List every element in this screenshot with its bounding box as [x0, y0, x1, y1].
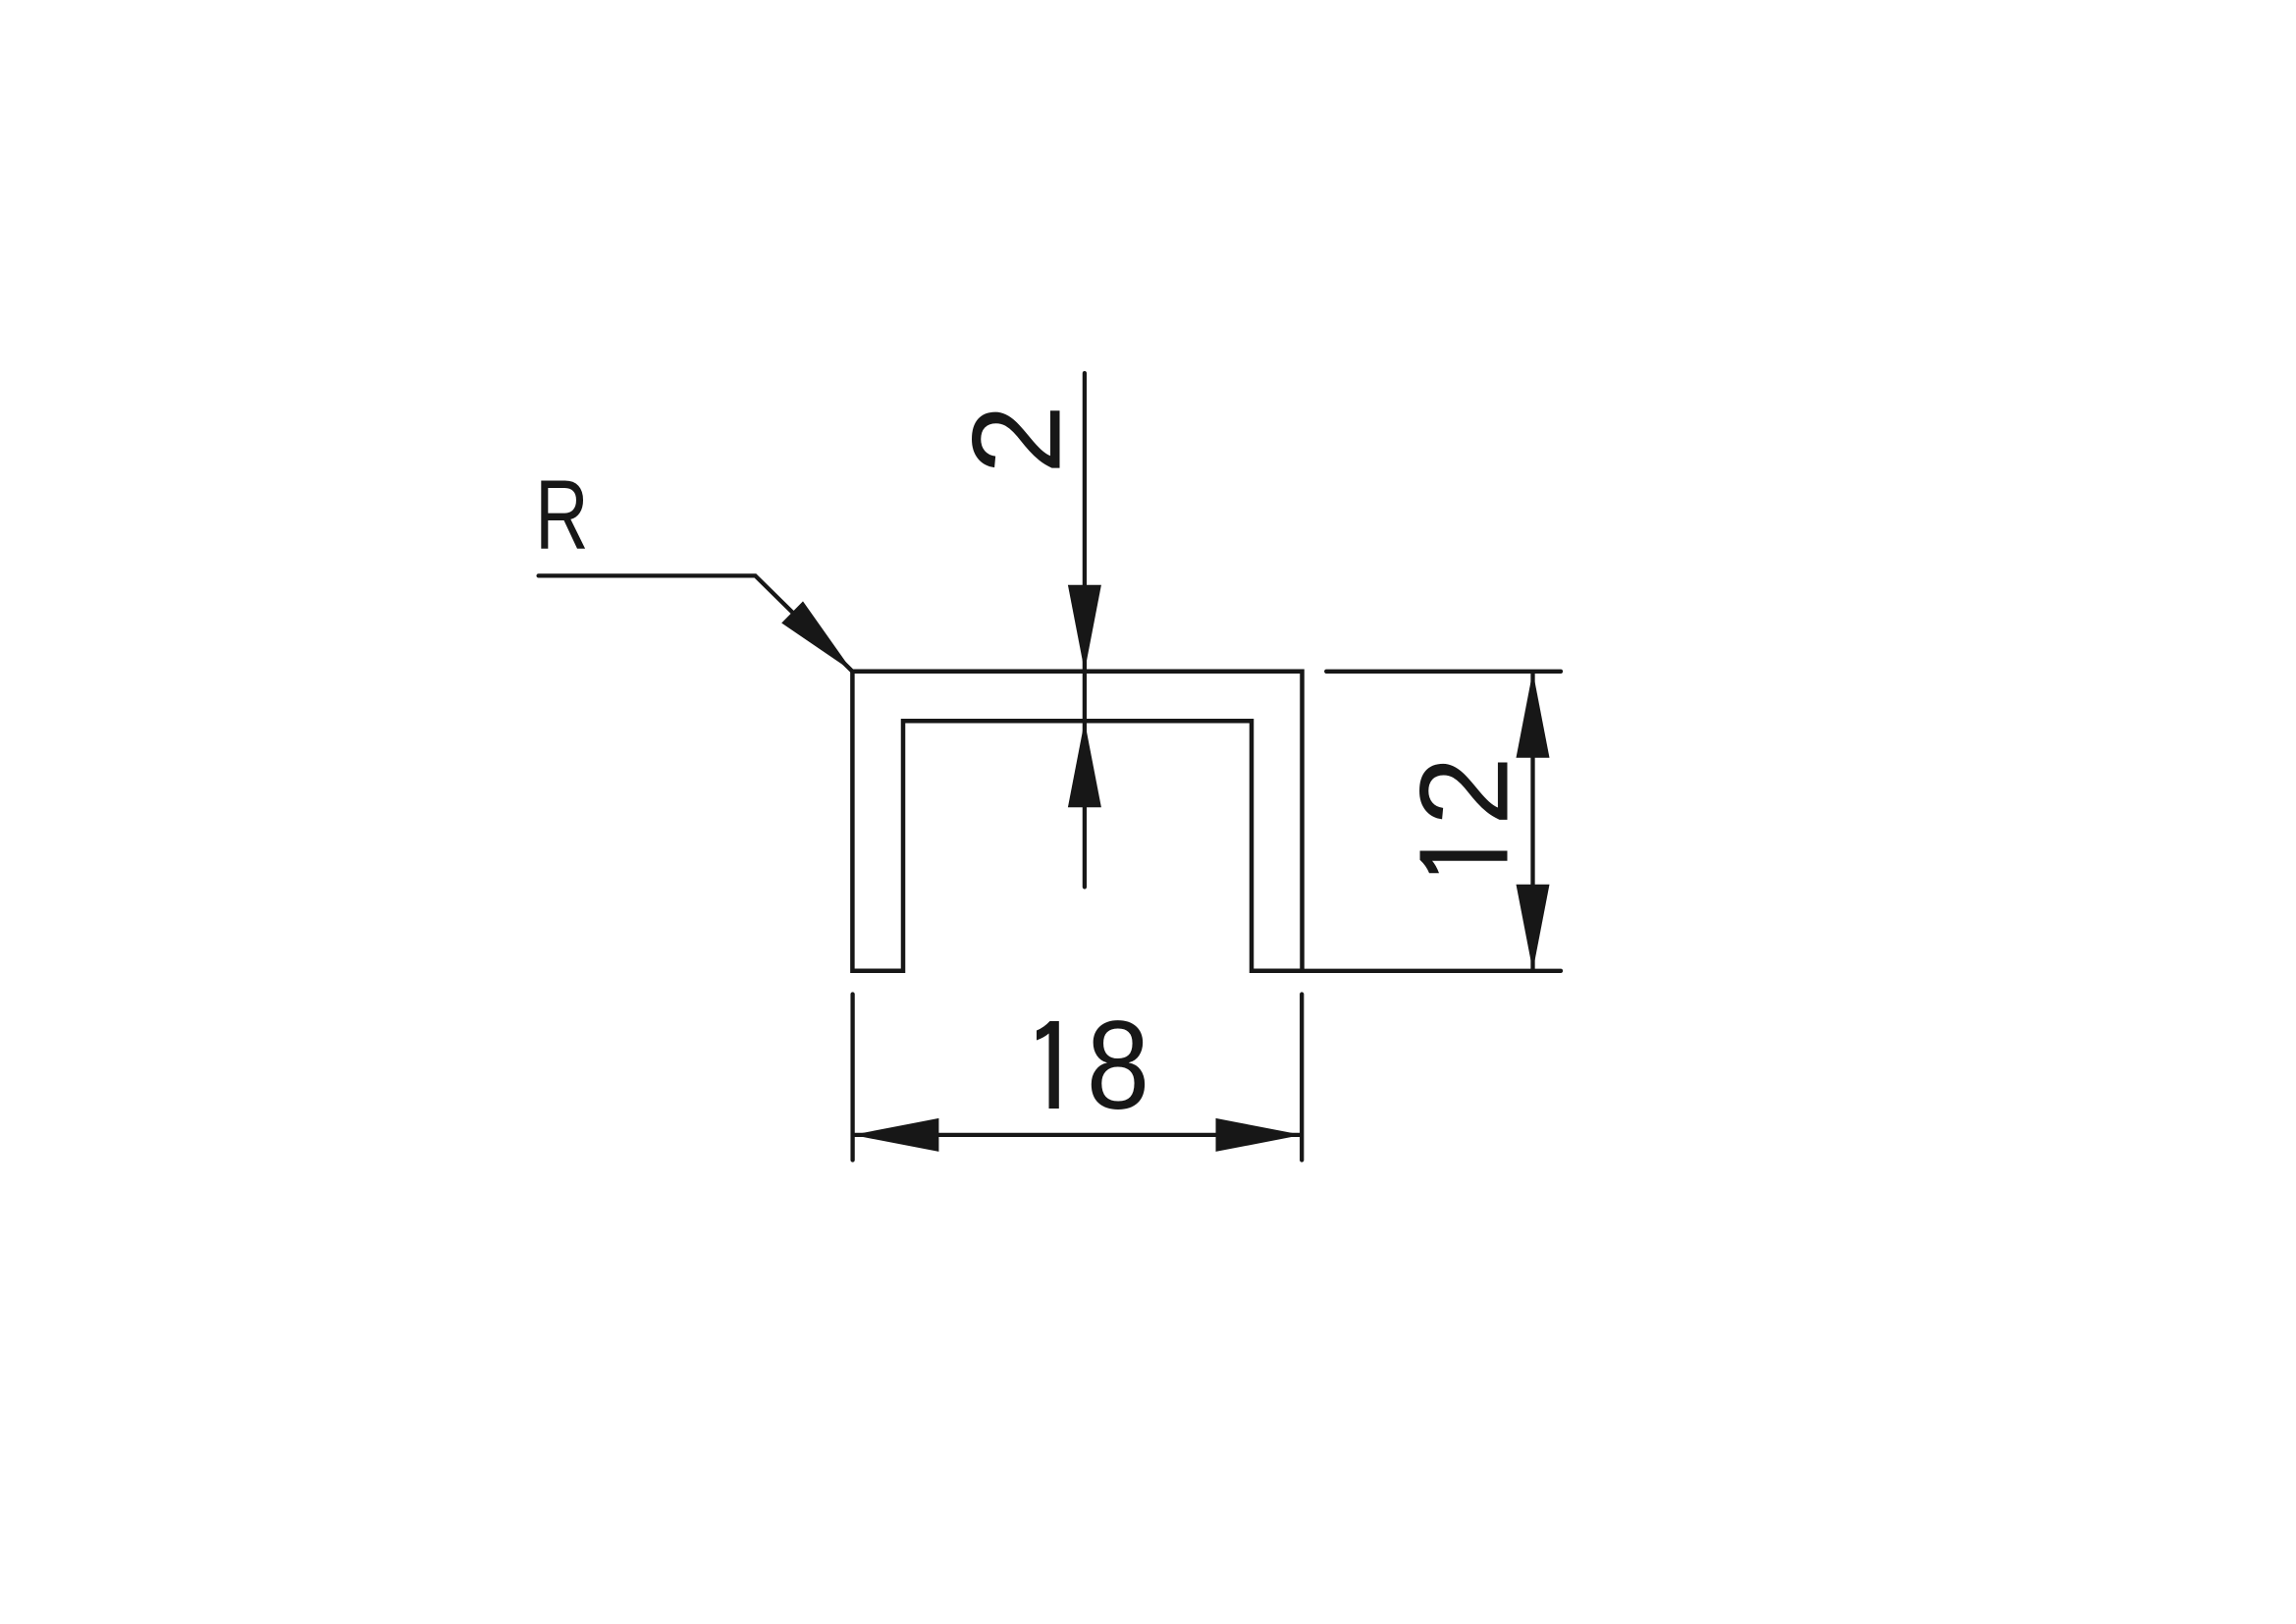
- svg-text:2: 2: [1395, 756, 1535, 826]
- value label 18: [1037, 1021, 1059, 1109]
- arrow right (18): [1216, 1118, 1303, 1152]
- dimension line 18: [852, 1133, 1302, 1137]
- arrow up (12 top): [1517, 672, 1550, 758]
- leader arrowhead: [781, 601, 852, 671]
- arrow up to inner top surface: [1068, 721, 1101, 807]
- svg-text:R: R: [535, 460, 588, 569]
- U-channel profile outline: [852, 672, 1302, 971]
- value label 12 (rotated): [1395, 756, 1535, 873]
- leader line (radius callout): [539, 575, 853, 671]
- svg-text:8: 8: [1087, 995, 1149, 1136]
- arrow left (18): [852, 1118, 938, 1152]
- svg-text:2: 2: [947, 405, 1088, 474]
- arrow down to outer top surface: [1068, 585, 1101, 672]
- arrow down (12 bottom): [1517, 885, 1550, 971]
- extension line bottom right (for 12): [1303, 969, 1562, 973]
- dimension line 2 (wall thickness): [1083, 373, 1087, 887]
- extension line top right (for 12): [1326, 670, 1561, 674]
- extension line bottom right (for 18): [1300, 995, 1304, 1161]
- extension line bottom left (for 18): [850, 995, 854, 1161]
- dimension line 12: [1530, 672, 1534, 971]
